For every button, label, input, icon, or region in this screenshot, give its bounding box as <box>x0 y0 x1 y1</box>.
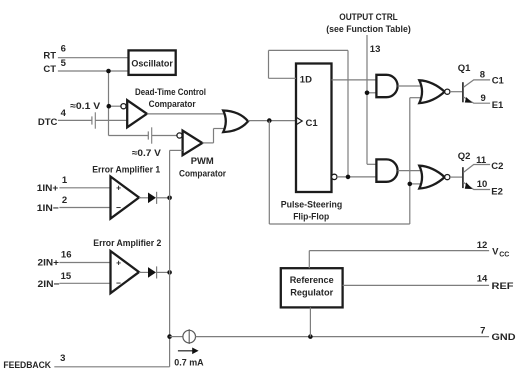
wire Qbar feedback to 1D input <box>269 50 349 176</box>
svg-text:16: 16 <box>61 250 72 261</box>
svg-text:4: 4 <box>61 108 67 119</box>
svg-text:C2: C2 <box>491 161 503 172</box>
svg-text:Reference: Reference <box>290 275 334 285</box>
and-gate G1 <box>376 75 397 97</box>
wire EA2 output <box>139 271 170 273</box>
pin CT (5) <box>43 58 128 75</box>
wire to current source <box>170 336 183 338</box>
wire AND1 output <box>398 85 422 87</box>
svg-text:E1: E1 <box>492 100 504 111</box>
wire dead-time comparator output to OR <box>147 113 226 115</box>
label Pulse-Steering Flip-Flop <box>281 200 343 223</box>
svg-text:1IN−: 1IN− <box>37 203 59 214</box>
svg-text:Regulator: Regulator <box>290 288 333 298</box>
op-amp PWM comparator <box>183 131 203 156</box>
wire branch to NOR2 input <box>410 183 421 185</box>
svg-text:Error Amplifier 2: Error Amplifier 2 <box>93 238 161 249</box>
svg-text:DTC: DTC <box>38 117 58 128</box>
wire ramp to pwm comparator <box>109 135 177 137</box>
flip-flop pulse-steering box U1 <box>296 64 332 193</box>
wire feedback bus vertical <box>169 150 171 366</box>
pin 9 E1 output <box>481 93 504 111</box>
or-gate comparator OR <box>223 111 248 133</box>
svg-text:8: 8 <box>480 69 485 80</box>
pin 2IN+ (16) <box>38 250 111 269</box>
wire pin13 branch to AND1 <box>367 92 377 94</box>
label PWM Comparator <box>179 156 226 180</box>
svg-text:Pulse-Steering: Pulse-Steering <box>281 200 343 211</box>
wire NOR2 output to Q2 base <box>450 176 463 178</box>
pin 8 C1 output <box>480 69 505 86</box>
label Error Amplifier 2 <box>93 238 161 249</box>
svg-text:(see Function Table): (see Function Table) <box>326 24 411 35</box>
svg-text:REF: REF <box>492 281 514 292</box>
pin DTC (4) <box>38 108 92 128</box>
junction ramp node <box>107 104 112 109</box>
current source I1 0.7 mA <box>183 329 196 344</box>
pin 7 GND <box>480 326 515 344</box>
wire pwm output to OR <box>202 129 226 143</box>
op-amp error amplifier 1 <box>111 177 140 219</box>
svg-text:7: 7 <box>480 326 485 337</box>
svg-text:3: 3 <box>60 353 65 364</box>
label 1D input <box>300 74 312 85</box>
svg-text:15: 15 <box>61 271 72 282</box>
svg-text:2: 2 <box>62 195 67 206</box>
diode D1 <box>148 192 157 204</box>
wire ramp to dead-time comparator input <box>109 105 121 107</box>
pin 1IN+ (1) <box>37 175 111 194</box>
svg-text:Oscillator: Oscillator <box>131 58 173 68</box>
svg-text:12: 12 <box>477 240 488 251</box>
nor-gate G3 <box>419 80 450 103</box>
value label 0.1 V <box>70 101 101 112</box>
svg-text:1IN+: 1IN+ <box>37 183 59 194</box>
svg-text:FEEDBACK: FEEDBACK <box>3 360 51 371</box>
pin 12 VCC <box>477 240 510 258</box>
svg-text:≈0.7 V: ≈0.7 V <box>132 148 162 159</box>
inverter bubble pwm input <box>177 133 182 138</box>
junction OR output node <box>267 118 272 123</box>
svg-text:6: 6 <box>61 44 66 55</box>
svg-text:+: + <box>116 183 121 193</box>
inverter bubble dead-time input <box>121 104 126 109</box>
svg-text:RT: RT <box>43 50 56 61</box>
pin 14 REF <box>477 274 514 292</box>
svg-text:C1: C1 <box>306 118 319 129</box>
svg-text:0.7 mA: 0.7 mA <box>174 357 203 368</box>
svg-text:Comparator: Comparator <box>149 99 196 110</box>
pin FEEDBACK (3) <box>3 353 169 371</box>
node OUTPUT CTRL label <box>326 12 411 35</box>
transistor Q2 <box>458 151 490 189</box>
current direction arrow <box>178 348 199 355</box>
wire NOR1 output to Q1 base <box>450 91 463 93</box>
junction EA1 node <box>167 196 172 201</box>
wire OR output to flip-flop C1 <box>248 120 296 122</box>
pin 10 E2 output <box>477 179 503 198</box>
svg-text:+: + <box>116 257 121 267</box>
svg-text:Q2: Q2 <box>458 151 471 162</box>
wire REF rail <box>343 284 490 286</box>
wire VCC to regulator <box>308 251 310 269</box>
pin 2IN- (15) <box>38 271 111 290</box>
svg-text:E2: E2 <box>491 187 503 198</box>
wire flip-flop Q output to AND1 <box>332 79 378 81</box>
inverter bubble Qbar output <box>332 174 337 179</box>
wire battery to comparator <box>95 119 127 121</box>
wire EA1 output <box>139 197 170 199</box>
battery 0.1V offset <box>92 112 95 128</box>
op-amp dead-time control comparator <box>127 100 147 127</box>
wire Qbar to AND2 <box>337 176 377 178</box>
svg-text:CC: CC <box>499 252 509 259</box>
svg-text:−: − <box>116 202 121 212</box>
junction regulator-gnd node <box>308 334 313 339</box>
svg-text:Dead-Time Control: Dead-Time Control <box>135 87 206 98</box>
label Error Amplifier 1 <box>92 164 161 175</box>
svg-text:2IN+: 2IN+ <box>38 257 60 268</box>
label Dead-Time Control Comparator <box>135 87 206 110</box>
wire AND2 output <box>398 170 422 172</box>
svg-text:11: 11 <box>476 155 487 166</box>
pin RT (6) <box>43 44 128 62</box>
svg-text:Comparator: Comparator <box>179 169 226 180</box>
transistor Q1 <box>458 63 490 103</box>
svg-text:2IN−: 2IN− <box>38 279 60 290</box>
pin 11 C2 output <box>476 155 503 172</box>
value label 0.7 mA <box>174 357 203 368</box>
svg-text:Q1: Q1 <box>458 63 471 74</box>
svg-text:CT: CT <box>43 64 56 75</box>
svg-text:9: 9 <box>481 93 486 104</box>
wire GND rail <box>196 336 490 338</box>
svg-text:10: 10 <box>477 179 488 190</box>
wire regulator to GND rail <box>309 307 311 336</box>
junction CT node <box>106 69 111 74</box>
pin 13 label <box>370 44 381 55</box>
label C1 clock input <box>297 118 319 130</box>
svg-text:5: 5 <box>61 58 67 69</box>
svg-text:GND: GND <box>492 332 516 343</box>
svg-text:1: 1 <box>62 175 68 186</box>
junction pin13 node <box>365 91 370 96</box>
junction Qbar node <box>346 175 351 180</box>
battery 0.7V offset <box>148 127 151 143</box>
wire VCC rail <box>309 250 489 252</box>
svg-text:1D: 1D <box>300 74 312 85</box>
oscillator block <box>129 50 176 75</box>
regulator block reference regulator <box>281 268 343 307</box>
svg-text:C1: C1 <box>492 76 505 87</box>
svg-text:V: V <box>492 246 499 257</box>
svg-text:PWM: PWM <box>191 156 214 167</box>
nor-gate G4 <box>419 166 450 189</box>
wire OR output loop to output gates <box>269 98 422 224</box>
svg-text:Error Amplifier 1: Error Amplifier 1 <box>92 164 161 175</box>
wire pin13 vertical (OUTPUT CTRL) <box>367 35 377 164</box>
diode D2 <box>148 266 157 278</box>
junction feedback-gnd node <box>167 334 172 339</box>
and-gate G2 <box>376 159 397 181</box>
junction EA2 node <box>167 270 172 275</box>
svg-text:OUTPUT CTRL: OUTPUT CTRL <box>339 12 398 23</box>
svg-text:Flip-Flop: Flip-Flop <box>293 211 329 222</box>
svg-text:−: − <box>116 278 121 288</box>
value label 0.7 V <box>132 148 162 159</box>
wire CT ramp vertical <box>108 71 110 136</box>
pin 1IN- (2) <box>37 195 111 214</box>
svg-text:14: 14 <box>477 274 488 285</box>
svg-text:≈0.1 V: ≈0.1 V <box>70 101 101 112</box>
wire feedback to pwm comparator input <box>170 149 183 151</box>
op-amp error amplifier 2 <box>111 251 140 293</box>
svg-text:13: 13 <box>370 44 381 55</box>
junction NOR2 input node <box>408 182 413 187</box>
